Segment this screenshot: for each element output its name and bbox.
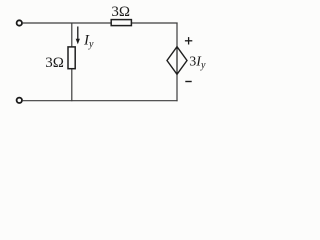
dependent source U1 diamond xyxy=(167,47,187,75)
current arrow Iy xyxy=(76,27,80,45)
wire top-left segment xyxy=(23,22,111,24)
terminal bottom-left xyxy=(17,98,22,103)
wire right branch lower xyxy=(176,74,178,101)
resistor R1 3ohm horizontal xyxy=(111,20,131,26)
wire left branch upper xyxy=(71,23,73,48)
polarity plus xyxy=(185,37,192,44)
dependent source internal line xyxy=(176,47,178,75)
wire bottom xyxy=(23,100,178,102)
wire top-right segment xyxy=(132,22,178,24)
terminal top-left xyxy=(17,20,22,25)
wire left branch lower xyxy=(71,69,73,101)
svg-text:3Ω: 3Ω xyxy=(45,55,64,71)
svg-text:3Ω: 3Ω xyxy=(111,4,130,20)
resistor R2 3ohm vertical xyxy=(68,47,75,69)
polarity minus xyxy=(185,81,191,83)
wire right branch upper xyxy=(176,23,178,48)
